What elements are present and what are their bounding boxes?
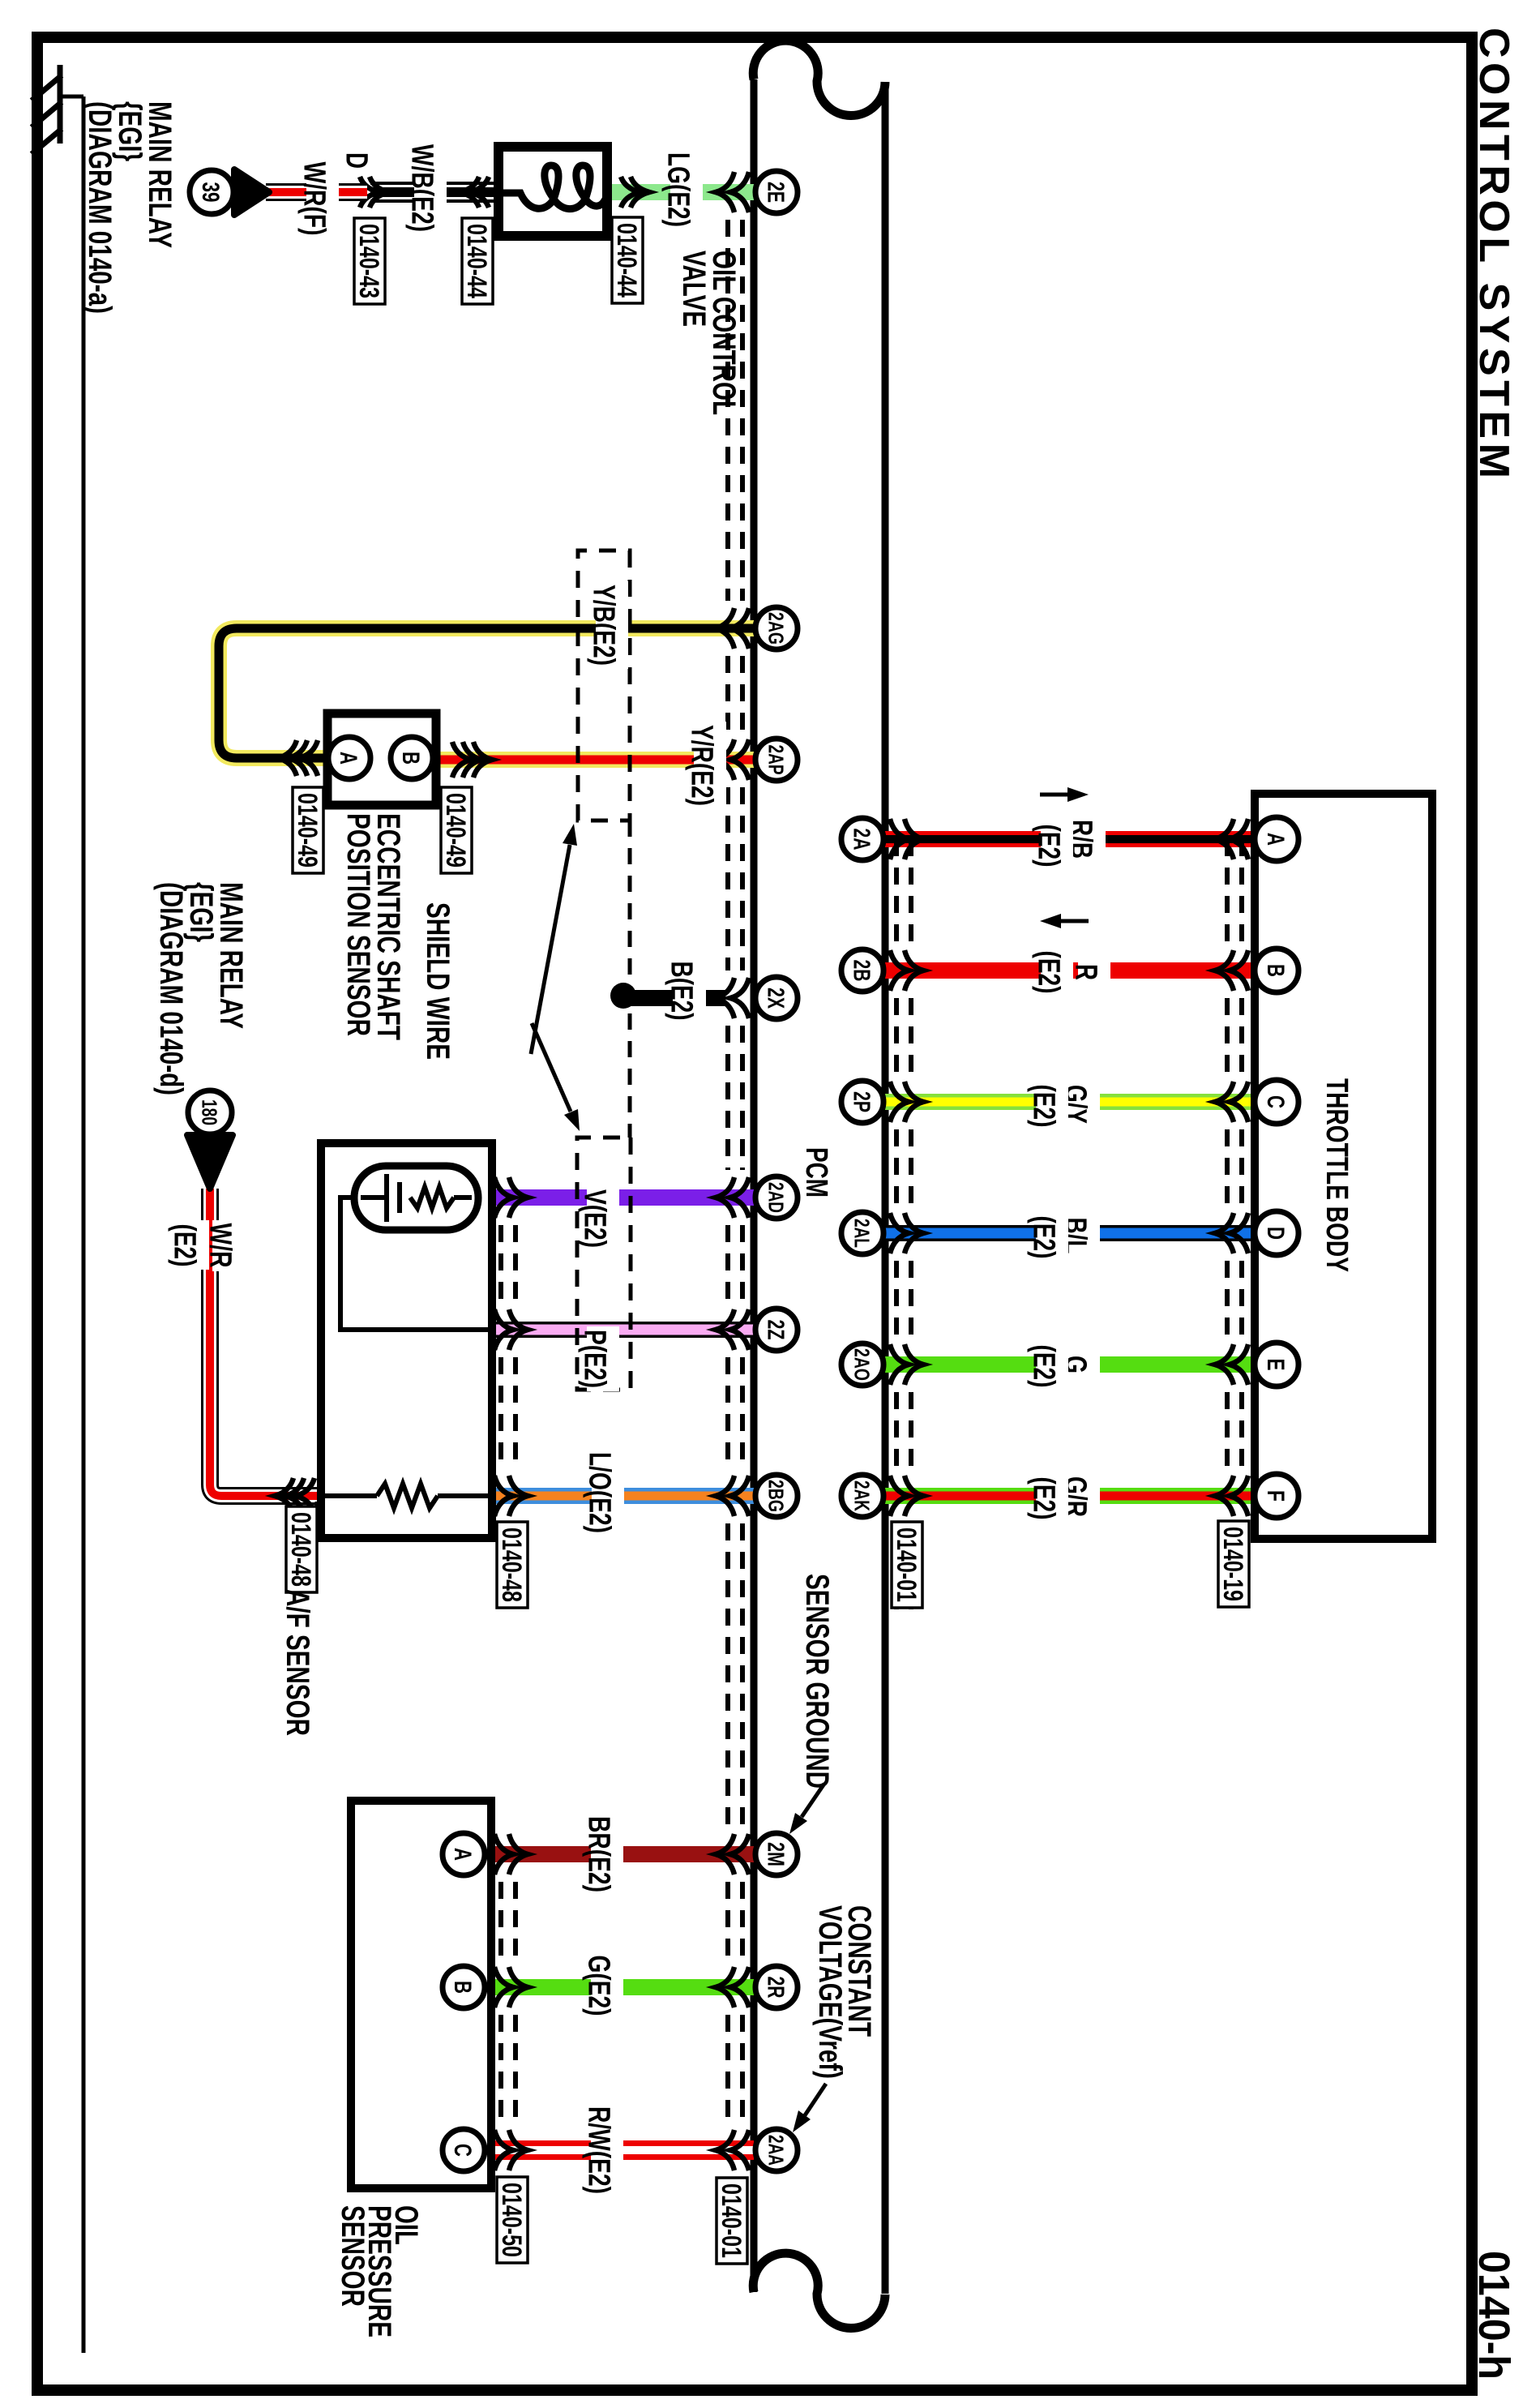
PCM pin 2P <box>841 1081 883 1123</box>
svg-text:(E2): (E2) <box>1026 1216 1060 1259</box>
shield net dashed link <box>628 821 632 1138</box>
oil control valve box <box>498 147 607 236</box>
svg-text:39: 39 <box>197 182 224 203</box>
svg-text:C: C <box>1262 1095 1289 1108</box>
wire G(E2) oil pressure sensor B to PCM 2R <box>482 1979 754 1995</box>
A/F sensor W/R chevron <box>275 1478 314 1514</box>
eccentric shaft position sensor box <box>327 713 436 805</box>
shield wire box around Y/B Y/R <box>578 551 630 821</box>
svg-text:F: F <box>1262 1490 1289 1502</box>
svg-text:A: A <box>335 752 361 765</box>
eccentric sensor pin B chevron <box>452 742 492 778</box>
label B/L (E2) <box>1026 1212 1100 1262</box>
PCM pin 2AD <box>755 1176 798 1219</box>
svg-text:0140-43: 0140-43 <box>353 224 384 298</box>
PCM pin 2E <box>755 171 798 213</box>
svg-text:180: 180 <box>198 1099 222 1125</box>
eccentric shaft position sensor label <box>340 813 406 1040</box>
svg-text:W/B(E2): W/B(E2) <box>404 144 439 232</box>
label R/W(E2) <box>581 2103 623 2197</box>
wire P(E2) A/F sensor to PCM 2Z <box>492 1322 754 1338</box>
label Y/R(E2) <box>684 722 726 809</box>
PCM pin 2BG <box>755 1475 798 1517</box>
sensor ground arrow <box>789 1784 824 1834</box>
svg-text:L/O(E2): L/O(E2) <box>582 1452 616 1533</box>
A/F sensor heater element <box>354 1166 478 1230</box>
svg-text:V(E2): V(E2) <box>577 1189 611 1248</box>
svg-text:2P: 2P <box>849 1091 875 1112</box>
wire Y/B(E2) eccentric sensor pin A to PCM 2AG <box>219 628 754 758</box>
PCM torn right edge <box>753 2253 885 2328</box>
main relay arrow 180 <box>187 1135 233 1189</box>
constant voltage arrow <box>793 2084 826 2132</box>
constant voltage label <box>812 1905 877 2079</box>
label V(E2) <box>577 1186 619 1251</box>
label W/R (E2) at main relay 180 <box>167 1220 245 1271</box>
wire W/R(F) from main relay 39 <box>266 183 367 201</box>
PCM pin 2AD chevron <box>716 1177 749 1218</box>
eccentric sensor pin B <box>391 737 433 779</box>
svg-text:2M: 2M <box>763 1842 789 1866</box>
svg-text:0140-48: 0140-48 <box>496 1527 527 1602</box>
wire G/R(E2) PCM 2AK to throttle body F <box>885 1488 1255 1504</box>
PCM pin 2BG chevron <box>716 1476 749 1516</box>
throttle body pin chevron at 2AK wire <box>1215 1476 1248 1516</box>
wire LG(E2) oil control valve to PCM 2E <box>607 184 754 200</box>
eccentric sensor pin A <box>328 737 370 779</box>
svg-text:0140-49: 0140-49 <box>440 793 471 868</box>
wire W/R(E2) from main relay 180 to A/F sensor <box>210 1189 318 1496</box>
svg-text:SENSOR: SENSOR <box>335 2205 370 2307</box>
svg-text:(E2): (E2) <box>1031 951 1065 994</box>
svg-text:VALVE: VALVE <box>676 251 712 327</box>
throttle body label <box>1320 1078 1354 1272</box>
PCM pin 2AP <box>755 739 798 781</box>
PCM pin 2B chevron <box>890 950 923 991</box>
throttle body pin E <box>1255 1343 1298 1386</box>
throttle body pin B <box>1255 949 1298 992</box>
title CONTROL SYSTEM <box>1470 28 1517 482</box>
sensor ground label <box>799 1574 835 1789</box>
oil control valve label <box>676 251 742 415</box>
A/F sensor internal link to P wire <box>340 1198 488 1330</box>
wire G(E2) PCM 2AO to throttle body E <box>885 1356 1255 1373</box>
PCM pin 2M <box>755 1833 798 1875</box>
svg-text:C: C <box>449 2144 476 2157</box>
svg-text:Y/B(E2): Y/B(E2) <box>586 585 620 666</box>
svg-text:D: D <box>1262 1227 1289 1240</box>
ground rail wire <box>62 96 83 2353</box>
connector label 0140-49 (pin B side) <box>440 787 472 873</box>
throttle body pin chevron at 2B wire <box>1215 950 1248 991</box>
PCM pin 2AO <box>841 1343 883 1386</box>
svg-text:BR(E2): BR(E2) <box>581 1816 615 1892</box>
svg-text:2E: 2E <box>763 182 789 203</box>
svg-text:0140-44: 0140-44 <box>461 224 492 298</box>
svg-text:0140-50: 0140-50 <box>496 2183 527 2257</box>
label P(E2) <box>577 1326 619 1391</box>
wire BR(E2) oil pressure sensor A to PCM 2M <box>482 1846 754 1862</box>
shield drain wire B(E2) to PCM 2X <box>617 990 725 1006</box>
wire B/L(E2) PCM 2AL to throttle body D <box>885 1225 1255 1241</box>
svg-text:A/F SENSOR: A/F SENSOR <box>280 1589 315 1736</box>
label R/B (E2) <box>1031 816 1106 870</box>
svg-text:B: B <box>1262 964 1289 977</box>
throttle body pin chevron at 2AL wire <box>1215 1213 1248 1253</box>
svg-text:(E2): (E2) <box>1026 1477 1060 1520</box>
label BR(E2) <box>581 1813 623 1896</box>
wire V(E2) A/F sensor to PCM 2AD <box>492 1189 754 1206</box>
svg-text:(DIAGRAM 0140-d): (DIAGRAM 0140-d) <box>153 882 189 1095</box>
PCM pin 2AL <box>841 1212 883 1254</box>
svg-text:0140-19: 0140-19 <box>1217 1527 1248 1601</box>
connector label 0140-01 (2AA side) <box>716 2178 747 2264</box>
main relay reference (diagram 0140-d) <box>153 882 249 1095</box>
A/F sensor connector chevron <box>494 1476 528 1516</box>
svg-text:D: D <box>339 152 373 169</box>
shield junction dot <box>610 983 636 1009</box>
throttle body pin D <box>1255 1211 1298 1255</box>
svg-text:(E2): (E2) <box>1026 1345 1060 1388</box>
connector 0140-44 chevron <box>460 177 489 208</box>
PCM E2 connector boundary (top) <box>896 839 911 1609</box>
throttle body connector boundary <box>1227 839 1242 1468</box>
ground symbol <box>32 65 62 154</box>
oil pressure sensor pin B <box>443 1966 485 2008</box>
PCM pin 2R chevron <box>716 1967 749 2007</box>
svg-text:W/R(F): W/R(F) <box>297 162 331 236</box>
PCM pin 2AA chevron <box>716 2130 749 2170</box>
oil pressure sensor pin C <box>443 2129 485 2171</box>
wire L/O(E2) A/F sensor to PCM 2BG <box>492 1488 754 1504</box>
PCM pin 2AP chevron <box>716 739 749 780</box>
svg-text:E: E <box>1262 1359 1289 1371</box>
label R (E2) <box>1031 947 1110 996</box>
main relay reference (diagram 0140-a) <box>82 101 178 314</box>
connector label 0140-19 <box>1217 1521 1249 1607</box>
shield wire label <box>420 902 456 1060</box>
svg-text:2B: 2B <box>849 960 875 982</box>
PCM E2 connector boundary (bottom) <box>728 220 742 2254</box>
svg-text:0140-49: 0140-49 <box>292 793 323 868</box>
throttle body pin F <box>1255 1474 1298 1518</box>
svg-text:0140-48: 0140-48 <box>285 1512 316 1587</box>
shield wire arrow left <box>531 824 577 1054</box>
wire W/B(E2) <box>370 182 498 203</box>
PCM torn left edge <box>753 41 885 115</box>
throttle body pin chevron at 2A wire <box>1215 819 1248 859</box>
svg-text:(E2): (E2) <box>1031 825 1065 868</box>
svg-text:Y/R(E2): Y/R(E2) <box>684 725 718 806</box>
svg-text:2AG: 2AG <box>764 612 789 645</box>
main relay circuit number 180 <box>188 1090 232 1134</box>
svg-text:2Z: 2Z <box>763 1320 789 1340</box>
svg-text:0140-h: 0140-h <box>1470 2251 1518 2380</box>
throttle body box <box>1255 794 1432 1539</box>
connector label 0140-44 (left) <box>461 218 493 304</box>
svg-text:P(E2): P(E2) <box>577 1330 611 1388</box>
connector 0140-43 chevron <box>360 177 388 208</box>
svg-text:2AP: 2AP <box>764 745 789 775</box>
PCM pin 2AA <box>755 2129 798 2171</box>
wire R(E2) PCM 2B to throttle body B <box>885 962 1255 979</box>
svg-text:2AL: 2AL <box>850 1219 875 1248</box>
A/F sensor connector chevron <box>494 1177 528 1218</box>
PCM pin 2AL chevron <box>890 1213 923 1253</box>
connector label 0140-50 <box>496 2177 528 2263</box>
label L/O(E2) <box>582 1449 624 1536</box>
svg-text:0140-01: 0140-01 <box>716 2183 747 2258</box>
page number 0140-h <box>1470 2251 1518 2380</box>
A/F sensor heater resistor <box>325 1484 488 1508</box>
oil pressure sensor connector chevron <box>494 2130 528 2170</box>
direction arrow R <box>1040 914 1089 928</box>
A/F sensor 0140-48 boundary stub <box>317 1502 332 1534</box>
A/F sensor label <box>280 1589 315 1736</box>
svg-text:LG(E2): LG(E2) <box>661 152 695 227</box>
svg-text:PCM: PCM <box>799 1147 833 1198</box>
eccentric sensor pin A chevron <box>278 740 318 776</box>
svg-text:CONTROL SYSTEM: CONTROL SYSTEM <box>1470 28 1517 482</box>
label W/B(E2) <box>404 141 447 235</box>
svg-text:(DIAGRAM 0140-a): (DIAGRAM 0140-a) <box>82 101 118 314</box>
oil control valve chevron top <box>621 177 649 208</box>
PCM pin 2E chevron <box>716 172 749 212</box>
svg-text:2AK: 2AK <box>850 1480 875 1511</box>
svg-text:R: R <box>1068 964 1102 980</box>
label LG(E2) <box>661 149 703 230</box>
svg-text:POSITION SENSOR: POSITION SENSOR <box>340 813 376 1036</box>
svg-text:2X: 2X <box>763 988 789 1009</box>
PCM label <box>799 1147 833 1198</box>
svg-text:VOLTAGE(Vref): VOLTAGE(Vref) <box>812 1905 848 2079</box>
PCM pin 2AK chevron <box>890 1476 923 1516</box>
oil pressure sensor label <box>335 2205 424 2337</box>
label Y/B(E2) <box>586 581 628 669</box>
throttle body pin chevron at 2AO wire <box>1215 1344 1248 1385</box>
svg-text:SHIELD WIRE: SHIELD WIRE <box>420 902 456 1060</box>
svg-text:SENSOR GROUND: SENSOR GROUND <box>799 1574 835 1789</box>
PCM pin 2AO chevron <box>890 1344 923 1385</box>
svg-text:(E2): (E2) <box>167 1224 201 1267</box>
A/F sensor box <box>321 1143 492 1538</box>
connector label 0140-48 (W/R side) <box>285 1506 317 1592</box>
svg-text:B: B <box>397 752 424 765</box>
PCM pin 2A <box>841 818 883 860</box>
PCM pin 2R <box>755 1966 798 2008</box>
svg-text:0140-01: 0140-01 <box>891 1527 922 1602</box>
oil control valve coil <box>498 165 607 209</box>
oil pressure sensor connector chevron <box>494 1967 528 2007</box>
svg-text:0140-44: 0140-44 <box>611 223 642 298</box>
connector label 0140-01 (2AK side) <box>891 1522 922 1608</box>
svg-text:R/W(E2): R/W(E2) <box>581 2106 615 2194</box>
main relay arrow 39 <box>234 169 269 215</box>
label G (E2) <box>1026 1341 1100 1390</box>
label pin D <box>339 152 373 169</box>
svg-text:A: A <box>1262 833 1289 846</box>
svg-text:2A: 2A <box>849 829 875 851</box>
svg-text:2BG: 2BG <box>764 1480 789 1512</box>
oil pressure sensor box <box>351 1801 491 2188</box>
PCM pin 2AK <box>841 1475 883 1517</box>
direction arrow R/B <box>1040 787 1089 802</box>
connector label 0140-48 (L/O side) <box>496 1522 528 1608</box>
label B(E2) <box>664 958 706 1023</box>
svg-text:B(E2): B(E2) <box>664 962 698 1021</box>
label G(E2) oil pressure <box>581 1952 623 2019</box>
PCM pin 2A chevron <box>890 819 923 859</box>
PCM pin 2X chevron <box>716 978 749 1018</box>
oil pressure sensor connector chevron <box>494 1834 528 1875</box>
connector label 0140-49 (pin A side) <box>292 787 323 873</box>
label G/Y (E2) <box>1026 1081 1100 1130</box>
svg-text:G(E2): G(E2) <box>581 1956 615 2016</box>
wire R/W(E2) oil pressure sensor C to PCM 2AA <box>482 2140 754 2160</box>
PCM pin 2X <box>755 977 798 1019</box>
PCM pin 2Z chevron <box>716 1309 749 1350</box>
svg-text:THROTTLE BODY: THROTTLE BODY <box>1320 1078 1354 1272</box>
PCM pin 2Z <box>755 1309 798 1351</box>
label G/R (E2) <box>1026 1473 1100 1523</box>
svg-text:2R: 2R <box>763 1977 789 1999</box>
shield wire arrow right <box>532 1023 580 1131</box>
svg-text:2AA: 2AA <box>764 2135 789 2166</box>
throttle body pin chevron at 2P wire <box>1215 1082 1248 1122</box>
PCM bus bottom line <box>751 79 758 2292</box>
PCM pin 2AG chevron <box>716 608 749 649</box>
label W/R(F) <box>297 159 339 239</box>
PCM pin 2AG <box>755 607 798 649</box>
main relay circuit number 39 <box>190 170 233 214</box>
PCM pin 2P chevron <box>890 1082 923 1122</box>
oil pressure sensor connector boundary <box>501 1882 516 2197</box>
PCM pin 2M chevron <box>716 1834 749 1875</box>
A/F sensor connector boundary <box>501 1225 516 1540</box>
svg-text:B: B <box>449 1981 476 1994</box>
svg-text:A: A <box>449 1848 476 1861</box>
oil pressure sensor pin A <box>443 1833 485 1875</box>
connector label 0140-44 (right) <box>611 217 643 303</box>
wire R/B(E2) PCM 2A to throttle body A <box>885 831 1255 847</box>
throttle body pin C <box>1255 1080 1298 1124</box>
A/F sensor connector chevron <box>494 1309 528 1350</box>
wire G/Y(E2) PCM 2P to throttle body C <box>885 1094 1255 1110</box>
PCM bus top line <box>882 82 889 2294</box>
connector label 0140-43 <box>353 218 385 304</box>
shield wire box around V P <box>577 1138 631 1390</box>
svg-text:2AD: 2AD <box>764 1182 789 1213</box>
svg-text:(E2): (E2) <box>1026 1085 1060 1128</box>
wire Y/R(E2) eccentric sensor pin B to PCM 2AP <box>431 752 754 768</box>
PCM pin 2B <box>841 949 883 992</box>
throttle body pin A <box>1255 817 1298 861</box>
svg-text:2AO: 2AO <box>850 1348 875 1381</box>
